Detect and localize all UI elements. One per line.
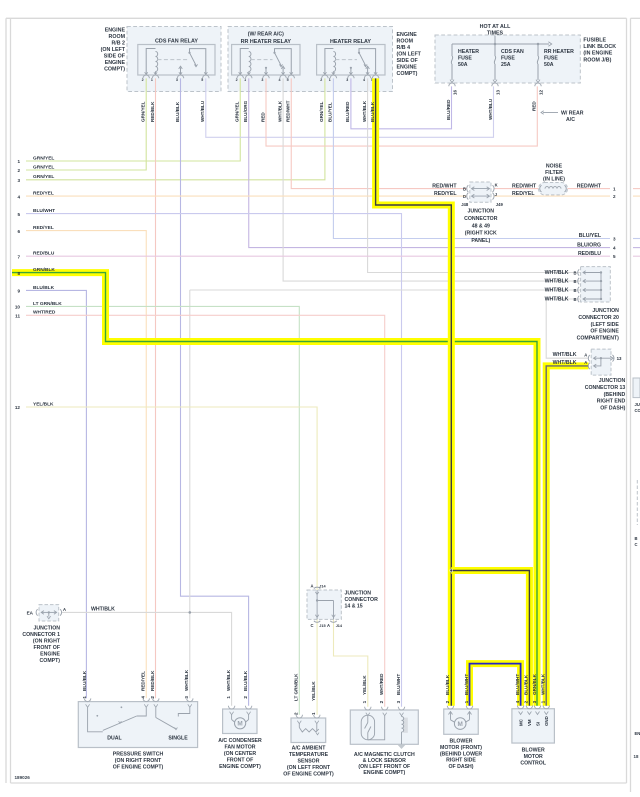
svg-text:RR HEATER: RR HEATER xyxy=(544,49,574,55)
junction connector J20 (left side of engine compartment) xyxy=(545,267,620,342)
wire: BLU/BLK row 9 to pressure switch pin 1 xyxy=(26,290,86,698)
svg-text:LT GRN/BLK: LT GRN/BLK xyxy=(294,673,299,701)
svg-text:YEL/BLK: YEL/BLK xyxy=(362,675,367,695)
svg-text:GRN/YEL: GRN/YEL xyxy=(319,101,324,122)
svg-text:PANEL): PANEL) xyxy=(471,238,490,244)
svg-text:GRN/YEL: GRN/YEL xyxy=(235,101,240,122)
svg-text:RIGHT SIDE: RIGHT SIDE xyxy=(446,758,476,764)
svg-text:WHT/BLK: WHT/BLK xyxy=(545,279,569,285)
svg-text:RED/WHT: RED/WHT xyxy=(512,183,537,189)
svg-text:HOT AT ALL: HOT AT ALL xyxy=(480,24,511,30)
svg-text:BLU/YEL: BLU/YEL xyxy=(328,102,333,122)
fuse F3: RR HEATER FUSE 50A (pin 12) xyxy=(535,44,574,95)
svg-text:WHT/BLU: WHT/BLU xyxy=(488,98,493,120)
row 7 label: RED/BLU xyxy=(17,251,54,260)
svg-text:11: 11 xyxy=(15,314,20,319)
wire: LT GRN/BLK row 10 to ambient temperature sensor pin 2 xyxy=(26,306,299,714)
svg-text:RED/WHT: RED/WHT xyxy=(286,100,291,122)
svg-text:WHT/BLK: WHT/BLK xyxy=(226,669,231,691)
svg-text:B: B xyxy=(573,271,576,276)
next page sliver marks xyxy=(633,189,640,759)
svg-text:(LEFT SIDE: (LEFT SIDE xyxy=(591,322,620,328)
svg-text:ROOM: ROOM xyxy=(397,39,414,45)
svg-text:25A: 25A xyxy=(501,62,511,68)
svg-text:4: 4 xyxy=(515,700,520,703)
svg-text:3: 3 xyxy=(396,700,401,703)
label: ENGINE ROOM R/B 2 location xyxy=(101,28,126,73)
svg-text:BLU/YEL: BLU/YEL xyxy=(579,233,602,239)
svg-text:BLU/WHT: BLU/WHT xyxy=(515,674,520,695)
svg-text:LT GRN/BLK: LT GRN/BLK xyxy=(33,301,62,307)
svg-text:R/B 4: R/B 4 xyxy=(397,45,411,51)
row 2 label: GRN/YEL xyxy=(17,164,54,173)
svg-text:C: C xyxy=(310,623,313,628)
svg-text:RED/YEL: RED/YEL xyxy=(141,671,146,691)
svg-text:CONNECTOR 20: CONNECTOR 20 xyxy=(578,315,619,321)
wire (highlighted): WHT/BLK junction connector 13 to blower motor control GND xyxy=(546,366,588,706)
svg-text:M: M xyxy=(458,721,463,728)
svg-text:HEATER: HEATER xyxy=(458,49,479,55)
svg-text:EA: EA xyxy=(27,610,34,615)
svg-text:ROOM: ROOM xyxy=(109,34,126,40)
svg-text:3: 3 xyxy=(176,78,178,82)
svg-text:FRONT OF: FRONT OF xyxy=(33,645,60,651)
svg-text:BLOWER: BLOWER xyxy=(522,748,545,754)
svg-text:WHT/BLK: WHT/BLK xyxy=(545,288,569,294)
wire: WHT/BLK row 4 of junction connector 20 down to junction connector 13 xyxy=(546,299,588,358)
wire: RED/BLU row 7 to right edge row 5 xyxy=(26,255,610,257)
svg-text:OF DASH): OF DASH) xyxy=(600,406,625,412)
svg-text:WHT/BLK: WHT/BLK xyxy=(545,297,569,303)
svg-text:K: K xyxy=(495,182,498,187)
svg-text:WHT/BLK: WHT/BLK xyxy=(91,606,115,612)
pin labels: blower motor xyxy=(445,674,469,704)
relay block: engine room R/B 4 (dashed box) xyxy=(228,27,393,92)
noise filter FL1 (in line) xyxy=(539,164,568,195)
relay block: engine room R/B 2 (dashed box) xyxy=(127,27,221,92)
wire: WHT/BLK junction connector 1 to pressure switch pin 3 and fan motor pin 1 xyxy=(62,612,232,705)
svg-text:VM: VM xyxy=(527,719,532,726)
svg-text:1: 1 xyxy=(244,78,246,82)
svg-text:ENGINE COMPT): ENGINE COMPT) xyxy=(219,764,261,770)
row 9 label: BLU/BLK xyxy=(17,285,54,294)
svg-text:2: 2 xyxy=(613,194,616,199)
svg-text:OF DASH): OF DASH) xyxy=(448,764,473,770)
svg-text:4: 4 xyxy=(613,246,616,251)
svg-text:WHT/BLK: WHT/BLK xyxy=(184,669,189,691)
wire (highlighted): BLU/BLK branch to blower motor control VM xyxy=(451,571,529,706)
svg-text:GRN/YEL: GRN/YEL xyxy=(33,174,54,180)
svg-text:NOISE: NOISE xyxy=(546,164,563,170)
label: BLOWER MOTOR (FRONT) location xyxy=(440,739,483,771)
svg-text:BLOWER: BLOWER xyxy=(449,739,472,745)
svg-text:RED/YEL: RED/YEL xyxy=(512,191,535,197)
svg-text:2: 2 xyxy=(379,700,384,703)
wire: GRN/YEL row 3 to heater relay pin 2 xyxy=(26,78,325,179)
svg-text:BLU/ORG: BLU/ORG xyxy=(243,100,248,122)
svg-text:3: 3 xyxy=(613,237,616,242)
svg-text:A: A xyxy=(310,583,313,588)
svg-text:9: 9 xyxy=(17,289,20,294)
row 5 label: BLU/WHT xyxy=(17,208,55,217)
svg-text:CO: CO xyxy=(635,408,640,413)
svg-text:C: C xyxy=(635,542,638,547)
svg-text:4: 4 xyxy=(363,78,365,82)
svg-text:WHT/BLU: WHT/BLU xyxy=(200,100,205,122)
svg-text:SIDE OF: SIDE OF xyxy=(104,54,126,60)
svg-text:(ON RIGHT: (ON RIGHT xyxy=(33,639,61,645)
svg-text:BLU/WHT: BLU/WHT xyxy=(396,674,401,695)
svg-text:2: 2 xyxy=(320,78,322,82)
svg-text:B: B xyxy=(573,279,576,284)
wire: RED/BLK CDS relay pin 1 down to pressure switch pin 2 xyxy=(155,78,157,698)
svg-text:MOTOR (FRONT): MOTOR (FRONT) xyxy=(440,745,482,751)
note arrow: W/ REAR A/C option on RED wire xyxy=(541,111,584,124)
svg-text:6: 6 xyxy=(17,229,20,234)
relay U3: HEATER RELAY xyxy=(317,39,385,82)
svg-text:CONNECTOR: CONNECTOR xyxy=(464,216,498,222)
svg-text:48 & 49: 48 & 49 xyxy=(472,223,490,229)
svg-text:SINGLE: SINGLE xyxy=(168,735,188,741)
svg-text:COMPT): COMPT) xyxy=(40,658,61,664)
svg-text:RED/WHT: RED/WHT xyxy=(432,183,457,189)
svg-text:FRONT OF: FRONT OF xyxy=(227,758,254,764)
wire: WHT/BLK vertical to pressure switch pin 3 xyxy=(189,290,191,698)
svg-text:GRN/YEL: GRN/YEL xyxy=(33,155,54,161)
svg-text:CONTROL: CONTROL xyxy=(520,760,546,766)
svg-text:OF ENGINE: OF ENGINE xyxy=(590,329,619,335)
svg-text:(RIGHT KICK: (RIGHT KICK xyxy=(465,231,497,237)
fuse bus (hot at all times) xyxy=(452,36,552,47)
svg-text:A: A xyxy=(327,623,330,628)
svg-text:ENGINE: ENGINE xyxy=(40,652,60,658)
relay U1: CDS FAN RELAY xyxy=(138,39,215,83)
svg-text:JUNCTION: JUNCTION xyxy=(599,378,626,384)
net label: BLU/ORG row 4 xyxy=(577,242,616,250)
svg-text:1: 1 xyxy=(541,700,546,703)
svg-text:GRN/BLK: GRN/BLK xyxy=(33,267,55,273)
junction connector J1 / ground EA (on right front of engine compt) xyxy=(22,605,115,664)
svg-text:ROOM J/B): ROOM J/B) xyxy=(583,57,611,63)
svg-text:FAN MOTOR: FAN MOTOR xyxy=(224,745,255,751)
fuse F1: HEATER FUSE 50A (pin 16) xyxy=(449,44,479,95)
wire: BLU/YEL heater relay pin 1 to right edge row 3 xyxy=(333,78,610,238)
pin labels: ambient sensor xyxy=(294,673,317,715)
svg-text:1: 1 xyxy=(329,78,331,82)
wire: WHT/BLK junction to junction connector 20 (third row) xyxy=(190,289,581,291)
pin labels: fan motor xyxy=(226,669,248,698)
row 12 label: YEL/BLK xyxy=(15,401,54,410)
junction connector J48/J49 (right kick panel) xyxy=(461,182,503,244)
svg-text:BLU/WHT: BLU/WHT xyxy=(33,208,55,214)
row 11 label: WHT/RED xyxy=(15,310,56,319)
svg-text:2: 2 xyxy=(142,78,144,82)
svg-text:BLU/RED: BLU/RED xyxy=(345,101,350,122)
svg-text:(ON CENTER: (ON CENTER xyxy=(224,751,257,757)
svg-text:ENGINE: ENGINE xyxy=(397,65,418,71)
svg-text:FUSE: FUSE xyxy=(501,55,515,61)
svg-text:FUSE: FUSE xyxy=(544,55,558,61)
svg-text:DUAL: DUAL xyxy=(107,735,122,741)
label: FUSIBLE LINK BLOCK location xyxy=(583,38,616,64)
wire (highlighted): BLU/BLK heater relay pin 5 to blower motor pin 2 xyxy=(376,78,452,705)
svg-text:(BEHIND: (BEHIND xyxy=(604,392,626,398)
svg-text:RED/BLU: RED/BLU xyxy=(33,251,55,257)
svg-text:10: 10 xyxy=(15,305,21,310)
svg-text:W/ REAR: W/ REAR xyxy=(561,111,584,117)
wire: WHT/RED row 11 to lock sensor pin 2 xyxy=(26,315,385,707)
svg-text:BLU/BLK: BLU/BLK xyxy=(445,674,450,695)
svg-text:A: A xyxy=(584,360,587,365)
wire: YEL/BLK junction connector 15 pin C to ambient sensor pin 1 xyxy=(316,619,318,714)
row 4 label: RED/YEL xyxy=(17,191,53,200)
label: PRESSURE SWITCH location xyxy=(113,752,164,771)
svg-text:5: 5 xyxy=(201,78,203,82)
svg-text:CONNECTOR 13: CONNECTOR 13 xyxy=(585,385,626,391)
svg-text:3: 3 xyxy=(532,700,537,703)
svg-text:(W/ REAR A/C): (W/ REAR A/C) xyxy=(248,32,284,38)
svg-text:2: 2 xyxy=(236,78,238,82)
svg-text:BLU/BLK: BLU/BLK xyxy=(175,101,180,122)
label: BLOWER MOTOR CONTROL xyxy=(520,748,546,767)
label: ENGINE ROOM R/B 4 location xyxy=(397,32,422,77)
wire: BLU/RED heater relay pin 3 to heater fuse pin 16 xyxy=(351,78,452,128)
svg-text:A/C: A/C xyxy=(566,117,575,123)
svg-text:(ON LEFT: (ON LEFT xyxy=(101,47,126,53)
wire: GRN/YEL row 1 to RR heater relay pin 2 xyxy=(26,78,240,161)
svg-text:COMPT): COMPT) xyxy=(397,71,418,77)
svg-text:13: 13 xyxy=(496,89,501,95)
svg-text:ENGINE: ENGINE xyxy=(397,32,418,38)
svg-text:(IN ENGINE: (IN ENGINE xyxy=(583,51,612,57)
svg-text:BLU/BLK: BLU/BLK xyxy=(524,674,529,695)
svg-text:J15: J15 xyxy=(319,624,325,628)
label: A/C MAGNETIC CLUTCH and LOCK SENSOR location xyxy=(354,752,415,776)
component MC1: A/C magnetic clutch and lock sensor xyxy=(350,707,418,745)
svg-text:ENGINE: ENGINE xyxy=(105,28,126,34)
svg-text:J48: J48 xyxy=(461,202,469,207)
svg-text:B: B xyxy=(463,187,466,192)
svg-text:JU: JU xyxy=(635,402,640,407)
svg-text:FUSE: FUSE xyxy=(458,55,472,61)
svg-text:SIDE OF: SIDE OF xyxy=(397,58,419,64)
svg-text:BLU/ORG: BLU/ORG xyxy=(577,242,601,248)
svg-text:WHT/RED: WHT/RED xyxy=(379,673,384,695)
svg-text:COMPT): COMPT) xyxy=(104,67,125,73)
svg-text:RED: RED xyxy=(260,112,265,122)
svg-text:R/B 2: R/B 2 xyxy=(111,41,125,47)
svg-text:FUSIBLE: FUSIBLE xyxy=(583,38,606,44)
svg-text:GRN/YEL: GRN/YEL xyxy=(141,101,146,122)
svg-text:RED/BLU: RED/BLU xyxy=(578,251,601,257)
svg-text:4: 4 xyxy=(141,696,146,699)
svg-text:2: 2 xyxy=(17,168,20,173)
svg-text:(BEHIND LOWER: (BEHIND LOWER xyxy=(440,751,483,757)
svg-text:FILTER: FILTER xyxy=(545,170,563,176)
svg-text:WHT/BLK: WHT/BLK xyxy=(545,270,569,276)
svg-text:M: M xyxy=(237,721,242,728)
svg-text:SENSOR: SENSOR xyxy=(298,759,320,765)
svg-text:MOTOR: MOTOR xyxy=(524,754,543,760)
svg-text:4: 4 xyxy=(17,194,20,199)
svg-text:3: 3 xyxy=(346,78,348,82)
svg-text:2: 2 xyxy=(524,700,529,703)
svg-text:TEMPERATURE: TEMPERATURE xyxy=(289,752,329,758)
label: A/C AMBIENT TEMPERATURE SENSOR location xyxy=(283,746,334,778)
svg-text:BLU/BLK: BLU/BLK xyxy=(243,670,248,691)
svg-text:189026: 189026 xyxy=(15,775,31,780)
svg-text:B: B xyxy=(573,288,576,293)
svg-text:J49: J49 xyxy=(496,202,504,207)
svg-text:ENGINE: ENGINE xyxy=(105,60,126,66)
svg-text:1: 1 xyxy=(226,696,231,699)
wire: BLU/WHT row 5 to A/C magnetic clutch lock sensor pin 3 xyxy=(26,214,402,707)
svg-text:BLU/BLK: BLU/BLK xyxy=(33,285,55,291)
wire: BLU/ORG RR relay pin 1 to right edge row 4 xyxy=(249,78,610,247)
fusible link block (dashed box) xyxy=(435,35,580,83)
svg-text:GRN/BLK: GRN/BLK xyxy=(532,673,537,695)
svg-text:1: 1 xyxy=(362,700,367,703)
svg-text:13: 13 xyxy=(617,356,622,361)
svg-text:RED/BLK: RED/BLK xyxy=(150,101,155,122)
svg-text:A/C AMBIENT: A/C AMBIENT xyxy=(292,746,327,752)
component S1: pressure switch xyxy=(78,698,197,747)
svg-text:RIGHT END: RIGHT END xyxy=(597,399,626,405)
svg-text:18: 18 xyxy=(634,754,639,759)
row 3 label: GRN/YEL xyxy=(17,174,54,183)
svg-text:1: 1 xyxy=(17,159,20,164)
svg-text:WHT/RED: WHT/RED xyxy=(33,310,56,316)
svg-text:1: 1 xyxy=(151,78,153,82)
wire: WHT/BLK heater relay pin 4 to junction connector 20 xyxy=(368,78,581,272)
svg-text:OF ENGINE COMPT): OF ENGINE COMPT) xyxy=(113,765,164,771)
svg-text:CDS FAN: CDS FAN xyxy=(501,49,524,55)
pin labels: pressure switch xyxy=(82,669,189,698)
row 6 label: RED/YEL xyxy=(17,225,53,234)
svg-text:WHT/BLK: WHT/BLK xyxy=(553,360,577,366)
pin labels: lock sensor xyxy=(362,673,401,704)
svg-text:RED/YEL: RED/YEL xyxy=(33,191,54,197)
relay U2: RR HEATER RELAY (W/ REAR A/C) xyxy=(232,32,300,83)
svg-text:1: 1 xyxy=(311,712,316,715)
svg-text:WHT/BLK: WHT/BLK xyxy=(362,100,367,122)
svg-text:RED/YEL: RED/YEL xyxy=(33,225,54,231)
wire: BLU/BLK CDS relay pin 3 to A/C condenser fan motor pin 2 xyxy=(181,78,249,705)
svg-text:(ON LEFT: (ON LEFT xyxy=(397,52,422,58)
svg-text:ENGINE COMPT): ENGINE COMPT) xyxy=(363,770,405,776)
svg-text:8: 8 xyxy=(17,271,20,276)
svg-text:COMPARTMENT): COMPARTMENT) xyxy=(577,336,620,342)
svg-text:GND: GND xyxy=(544,716,549,726)
svg-text:7: 7 xyxy=(17,254,20,259)
ground symbol below lock sensor xyxy=(398,745,406,749)
svg-text:RED: RED xyxy=(532,101,537,111)
svg-text:OF ENGINE COMPT): OF ENGINE COMPT) xyxy=(283,772,334,778)
svg-text:16: 16 xyxy=(453,89,458,95)
svg-text:BLU/BLK: BLU/BLK xyxy=(370,101,375,122)
wire: YEL/BLK junction connector 14 pin A to lock sensor pin 1 xyxy=(334,619,368,706)
pin labels: blower motor control xyxy=(515,673,546,703)
fuse F2: CDS FAN FUSE 25A (pin 13) xyxy=(492,44,524,95)
svg-text:4: 4 xyxy=(279,78,281,82)
svg-text:(ON RIGHT FRONT: (ON RIGHT FRONT xyxy=(115,758,162,764)
svg-text:BLU/WHT: BLU/WHT xyxy=(464,674,469,695)
svg-text:BLU/BLK: BLU/BLK xyxy=(82,670,87,691)
svg-text:12: 12 xyxy=(15,405,21,410)
row 8 label: GRN/BLK xyxy=(17,267,55,276)
component M1: A/C condenser fan motor xyxy=(223,706,257,734)
svg-text:3: 3 xyxy=(184,696,189,699)
svg-text:1: 1 xyxy=(464,700,469,703)
svg-text:3: 3 xyxy=(17,178,20,183)
component M2: blower motor (front) xyxy=(444,706,479,735)
net label: BLU/YEL row 3 xyxy=(579,233,616,241)
svg-text:2: 2 xyxy=(150,696,155,699)
svg-text:5: 5 xyxy=(17,212,20,217)
svg-text:A: A xyxy=(584,352,587,357)
svg-text:J14: J14 xyxy=(319,584,326,588)
wire (highlighted): BLU/WHT blower motor pin 1 to blower motor control MC xyxy=(470,664,521,706)
svg-text:1: 1 xyxy=(82,696,87,699)
svg-text:D: D xyxy=(463,194,466,199)
svg-text:YEL/BLK: YEL/BLK xyxy=(311,681,316,701)
svg-text:RED/YEL: RED/YEL xyxy=(434,191,457,197)
svg-text:J14: J14 xyxy=(336,624,343,628)
net label: RED/BLU row 5 xyxy=(578,251,616,259)
svg-text:GRN/YEL: GRN/YEL xyxy=(33,164,54,170)
svg-text:RED/WHT: RED/WHT xyxy=(577,183,602,189)
svg-text:MC: MC xyxy=(518,718,523,726)
wire: GRN/YEL row 2 to CDS fan relay pin 2 xyxy=(26,78,146,170)
svg-text:5: 5 xyxy=(613,254,616,259)
wire: RED/WHT junction connector 49 pin K to right edge row 1 through noise filter xyxy=(494,188,610,190)
svg-text:WHT/BLK: WHT/BLK xyxy=(277,100,282,122)
svg-text:EN: EN xyxy=(635,731,640,736)
svg-text:2: 2 xyxy=(243,696,248,699)
svg-text:CDS FAN RELAY: CDS FAN RELAY xyxy=(155,39,198,45)
row 10 label: LT GRN/BLK xyxy=(15,301,62,310)
svg-text:YEL/BLK: YEL/BLK xyxy=(33,401,54,407)
wire: RED/WHT RR relay pin 5 to junction connector 48 xyxy=(291,78,466,188)
svg-text:B: B xyxy=(635,536,638,541)
svg-text:LINK BLOCK: LINK BLOCK xyxy=(583,44,616,50)
svg-text:JUNCTION: JUNCTION xyxy=(345,591,372,597)
net label: RED/WHT right of noise filter, row 1 xyxy=(577,183,616,191)
svg-text:3: 3 xyxy=(261,78,263,82)
wire: YEL/BLK row 12 to junction connector 14 top pin A xyxy=(26,407,317,590)
svg-text:1: 1 xyxy=(613,186,616,191)
svg-text:50A: 50A xyxy=(458,62,468,68)
svg-text:JUNCTION: JUNCTION xyxy=(33,626,60,632)
svg-text:50A: 50A xyxy=(544,62,554,68)
component U4: blower motor control xyxy=(512,706,555,744)
svg-text:CONNECTOR 1: CONNECTOR 1 xyxy=(22,632,60,638)
svg-text:CONNECTOR: CONNECTOR xyxy=(345,597,379,603)
svg-text:2: 2 xyxy=(445,700,450,703)
svg-text:14 & 15: 14 & 15 xyxy=(345,604,363,610)
svg-text:SI: SI xyxy=(535,722,540,726)
wire: RED RR relay pin 3 to RR heater fuse pin 12 xyxy=(266,78,537,146)
svg-text:JUNCTION: JUNCTION xyxy=(592,308,619,314)
wire: RED/YEL junction connector 49 pin J to right edge row 2 xyxy=(494,195,610,197)
label: HOT AT ALL TIMES xyxy=(480,24,511,37)
svg-text:(ON LEFT FRONT: (ON LEFT FRONT xyxy=(287,765,331,771)
svg-text:5: 5 xyxy=(287,78,289,82)
svg-text:WHT/BLK: WHT/BLK xyxy=(541,673,546,695)
junction connector J13 (behind right end of dash) xyxy=(553,349,626,412)
svg-text:2: 2 xyxy=(294,712,299,715)
wire: RED/YEL row 6 to pressure switch pin 4 xyxy=(26,231,146,699)
